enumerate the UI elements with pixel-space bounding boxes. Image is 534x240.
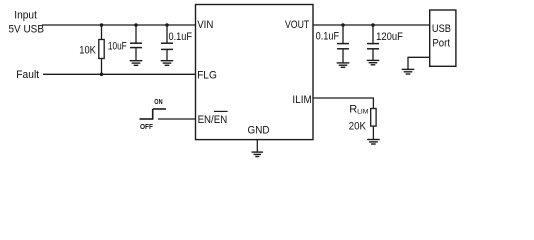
junction node R1 bottom bbox=[100, 73, 104, 77]
svg-text:USB: USB bbox=[432, 23, 451, 35]
ground (C1) bbox=[130, 61, 143, 66]
label USB Port bbox=[432, 23, 451, 50]
wire FLG (Fault net) bbox=[43, 73, 196, 75]
svg-text:VOUT: VOUT bbox=[285, 19, 309, 31]
svg-text:Input: Input bbox=[14, 10, 37, 22]
junction node C4 bbox=[371, 23, 375, 27]
svg-text:0.1uF: 0.1uF bbox=[316, 31, 340, 43]
junction node C1 bbox=[134, 23, 138, 27]
svg-text:ILIM: ILIM bbox=[292, 94, 311, 106]
USB port connector J1 bbox=[430, 10, 456, 66]
svg-text:Port: Port bbox=[432, 38, 450, 50]
capacitor C4 120uF bbox=[367, 25, 379, 60]
svg-text:OFF: OFF bbox=[140, 122, 153, 131]
wire GND stub bbox=[256, 140, 258, 152]
ground (IC GND) bbox=[252, 152, 264, 156]
svg-text:RLIM: RLIM bbox=[349, 104, 369, 116]
capacitor C1 10uF bbox=[130, 25, 142, 61]
wire EN bbox=[158, 118, 196, 120]
ground (R2) bbox=[367, 140, 380, 145]
svg-text:5V USB: 5V USB bbox=[9, 24, 45, 36]
junction node R1 top bbox=[100, 23, 104, 27]
wire VOUT rail bbox=[313, 24, 430, 26]
wire VIN rail bbox=[42, 24, 196, 26]
resistor R2 RLIM 20K bbox=[371, 109, 376, 140]
node Input (5V USB) label bbox=[9, 10, 45, 36]
switch SW1 ON/OFF bbox=[140, 109, 167, 120]
junction node C3 bbox=[341, 23, 345, 27]
IC U1 bbox=[196, 5, 314, 140]
wire USB ground bbox=[408, 57, 430, 69]
pin EN/EN bbox=[198, 114, 228, 126]
capacitor C2 0.1uF bbox=[161, 25, 173, 61]
ground (USB port) bbox=[402, 69, 415, 74]
wire ILIM bbox=[313, 98, 373, 109]
svg-text:FLG: FLG bbox=[197, 70, 217, 82]
svg-text:0.1uF: 0.1uF bbox=[169, 31, 193, 43]
ground (C4) bbox=[367, 60, 380, 64]
label RLIM bbox=[349, 104, 369, 116]
svg-text:10K: 10K bbox=[79, 45, 96, 57]
svg-text:Fault: Fault bbox=[16, 69, 39, 81]
ground (C2) bbox=[161, 61, 174, 66]
svg-text:GND: GND bbox=[248, 124, 270, 136]
capacitor C3 0.1uF bbox=[337, 25, 349, 63]
svg-text:20K: 20K bbox=[349, 120, 367, 132]
ground (C3) bbox=[337, 63, 350, 67]
svg-text:120uF: 120uF bbox=[376, 31, 403, 43]
resistor R1 10K bbox=[99, 25, 104, 74]
svg-text:ON: ON bbox=[154, 97, 162, 106]
svg-text:VIN: VIN bbox=[197, 19, 213, 31]
svg-text:EN/EN: EN/EN bbox=[198, 114, 228, 126]
junction node C2 bbox=[165, 23, 169, 27]
svg-text:10uF: 10uF bbox=[108, 41, 127, 53]
